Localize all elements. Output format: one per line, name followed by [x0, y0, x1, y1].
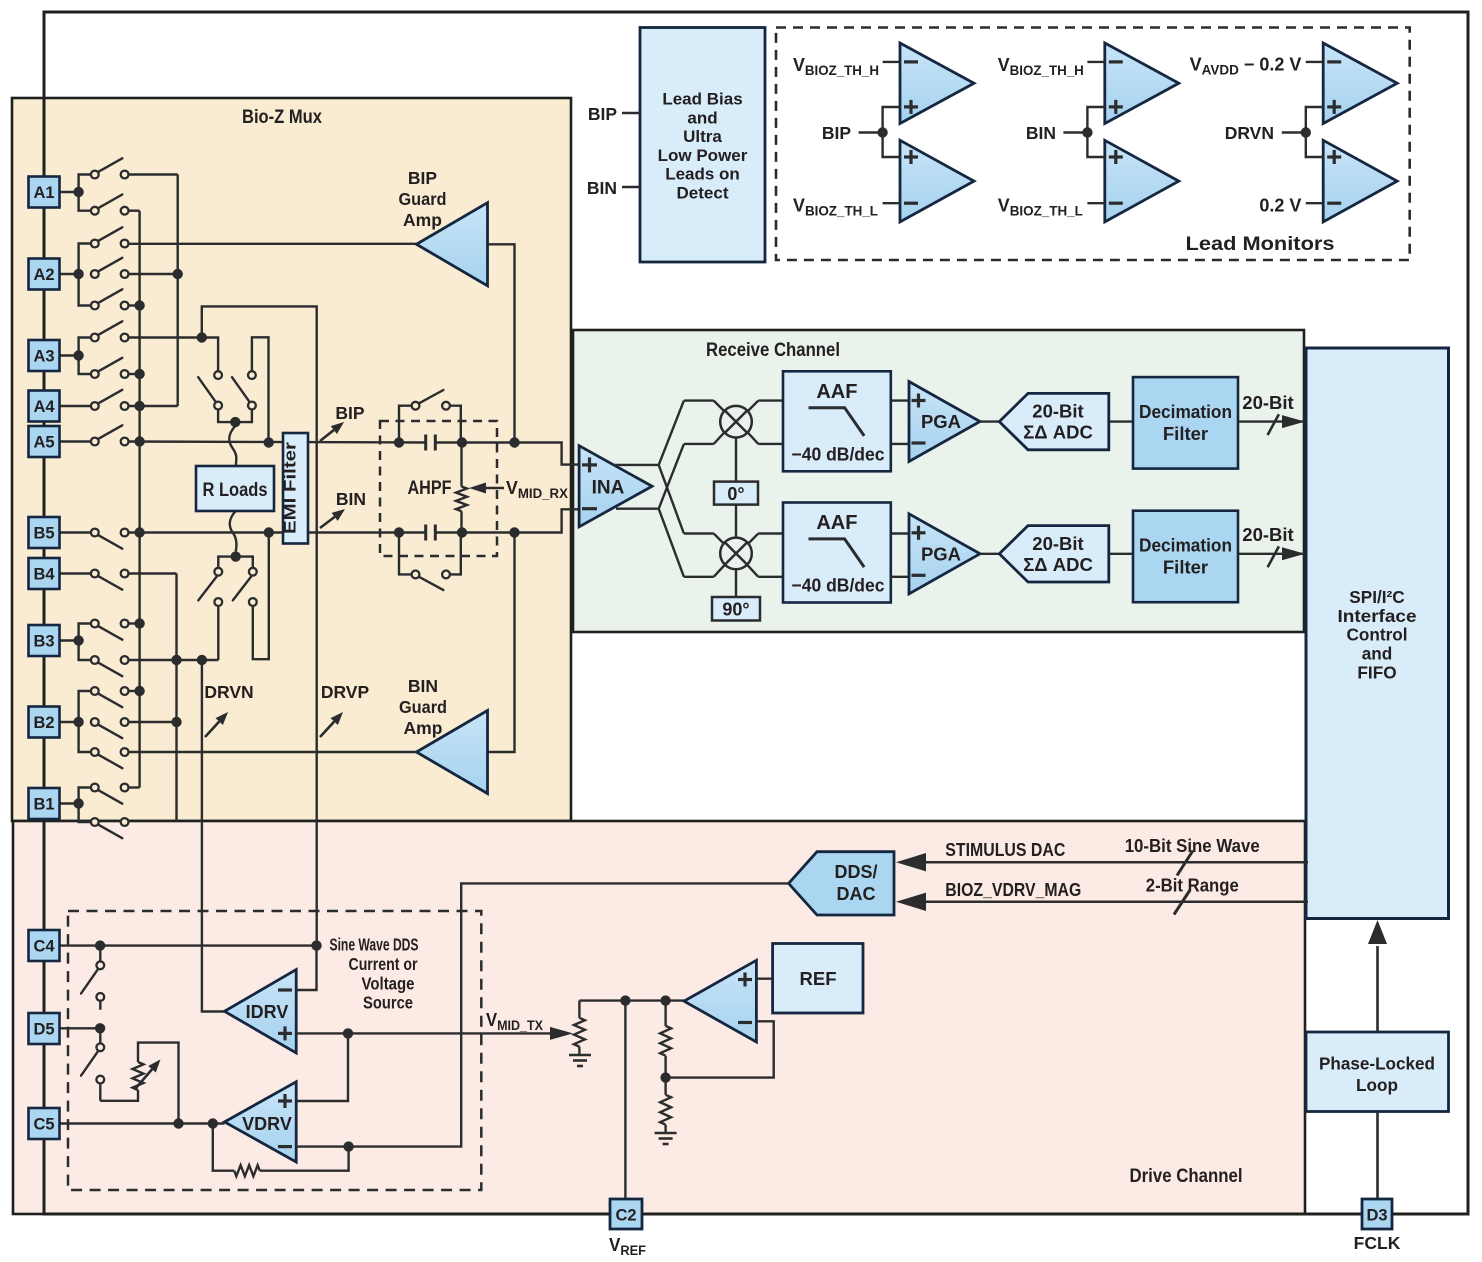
svg-text:REF: REF [800, 968, 837, 989]
amplifier PGA I [909, 382, 980, 462]
ground divider [655, 1132, 677, 1135]
op-amp BIP Guard Amp [416, 203, 487, 286]
svg-text:DAC: DAC [837, 884, 876, 904]
svg-text:20-Bit: 20-Bit [1032, 533, 1083, 554]
filter AHPF dashed box [380, 421, 497, 556]
wire C4 row [60, 944, 317, 946]
wire LO chain [735, 438, 737, 482]
svg-text:Source: Source [363, 993, 413, 1013]
svg-text:0°: 0° [727, 484, 744, 504]
wire BIP row (A5 to INA+) [134, 436, 144, 446]
svg-text:D3: D3 [1366, 1207, 1387, 1225]
wire A1 fork [73, 187, 83, 197]
wire VDRV feedback [260, 1147, 349, 1171]
svg-text:Decimation: Decimation [1139, 535, 1232, 556]
svg-text:C4: C4 [33, 938, 55, 956]
svg-text:Ultra: Ultra [683, 127, 722, 146]
rheostat adjustable R [133, 1062, 144, 1090]
comparator upper [1105, 43, 1179, 124]
wire B4 to bus-M2 [129, 572, 177, 574]
capacitor AHPF bottom [424, 525, 427, 541]
wire AAF-PGA stubs I [891, 399, 909, 401]
resistor block R Loads [196, 466, 274, 511]
switch A4 [60, 405, 91, 407]
wire to C2 pin [624, 1001, 626, 1199]
wire buffer+ to REF [756, 978, 772, 980]
wire INA output fan [614, 464, 659, 466]
svg-text:IDRV: IDRV [246, 1002, 289, 1022]
filter Decimation Q [1133, 511, 1238, 603]
wire VREF node row [579, 999, 684, 1001]
wire ADC-decimation I [1109, 420, 1133, 422]
wire DRVP bus [202, 306, 317, 945]
filter AAF I [783, 371, 891, 471]
svg-text:PGA: PGA [921, 543, 961, 564]
op-amp INA [579, 446, 652, 527]
svg-text:VDRV: VDRV [242, 1114, 292, 1134]
svg-text:SPI/I²C: SPI/I²C [1349, 587, 1404, 607]
svg-text:Leads on: Leads on [665, 165, 740, 184]
switch A1-top [98, 158, 123, 172]
wire ADC-decimation Q [1109, 553, 1133, 555]
svg-text:INA: INA [592, 478, 625, 499]
wire A2-bottom to bus-L [129, 304, 140, 306]
svg-text:Interface: Interface [1338, 606, 1417, 626]
svg-text:B1: B1 [33, 796, 54, 814]
pin B2 [29, 707, 60, 738]
switch B2-top [98, 693, 123, 707]
svg-text:Low Power: Low Power [658, 146, 748, 165]
svg-text:and: and [1362, 644, 1393, 664]
wire RL bottom node arms [218, 557, 235, 568]
wire BIP guard input bus [488, 244, 515, 442]
svg-text:DRVN: DRVN [204, 682, 253, 702]
wire B2-top to bus-L [129, 690, 140, 692]
svg-text:Current or: Current or [349, 954, 418, 974]
svg-text:AHPF: AHPF [408, 478, 452, 499]
mixer Q [720, 538, 752, 570]
wire A2 fork [73, 269, 83, 279]
adc 20-bit sigma-delta I [999, 393, 1109, 449]
svg-text:B3: B3 [33, 633, 54, 651]
pin A4 [29, 391, 60, 422]
svg-text:A3: A3 [33, 348, 54, 366]
block Phase-Locked Loop [1306, 1032, 1449, 1112]
svg-text:and: and [687, 108, 717, 127]
svg-text:B2: B2 [33, 714, 54, 732]
wire RL-bottom-left to DRVN row [217, 606, 219, 660]
wire squiggle R Loads bottom [230, 511, 237, 551]
wire mixer1 jogs [714, 401, 727, 414]
svg-text:BIP: BIP [335, 403, 365, 423]
wire D5 row [60, 1027, 101, 1029]
svg-text:Filter: Filter [1163, 423, 1208, 444]
svg-text:FCLK: FCLK [1354, 1233, 1401, 1253]
svg-text:B5: B5 [33, 525, 54, 543]
amplifier IDRV [225, 970, 297, 1053]
resistor divider bottom [660, 1095, 671, 1125]
switch A5 [60, 440, 91, 442]
svg-text:Filter: Filter [1163, 557, 1208, 578]
switch A2-bottom [98, 289, 123, 303]
wire PGA-ADC I [980, 420, 999, 422]
svg-text:Receive Channel: Receive Channel [706, 340, 840, 361]
wire buffer- feedback [666, 1021, 774, 1077]
svg-text:ΣΔ ADC: ΣΔ ADC [1023, 554, 1093, 575]
wire 20-bit output Q [1238, 553, 1308, 555]
svg-text:Guard: Guard [399, 189, 447, 209]
svg-text:A2: A2 [33, 266, 54, 284]
pin A5 [29, 426, 60, 457]
switch B5 [60, 531, 91, 533]
filter Decimation I [1133, 377, 1238, 469]
switch B1-top [98, 790, 123, 804]
svg-text:PGA: PGA [921, 411, 961, 432]
wire A3-top arm to switch column [202, 338, 218, 372]
comparator lower [1105, 140, 1179, 222]
svg-text:Detect: Detect [677, 184, 729, 203]
wire A2-top to BIP guard amp output [129, 243, 417, 245]
pin D5 [29, 1013, 60, 1044]
box Sine Wave DDS source dashed [68, 911, 481, 1190]
svg-text:Decimation: Decimation [1139, 401, 1232, 422]
wire RL-bottom-right to BIN row [253, 533, 269, 660]
block Lead Bias and Ultra Low Power Leads on Detect [640, 28, 765, 263]
switch AHPF top bypass [399, 406, 411, 443]
comparator VREF buffer [684, 960, 756, 1042]
adc 20-bit sigma-delta Q [999, 526, 1109, 582]
svg-text:C2: C2 [615, 1207, 636, 1225]
svg-text:Amp: Amp [404, 718, 443, 738]
svg-text:−40 dB/dec: −40 dB/dec [792, 443, 885, 464]
ground V_MID_TX [569, 1054, 591, 1057]
switch RL-top-right [252, 337, 269, 442]
svg-text:Voltage: Voltage [362, 974, 415, 994]
svg-text:BIN: BIN [336, 489, 366, 509]
pin C2 [610, 1199, 642, 1229]
switch B2-mid [98, 724, 123, 738]
svg-text:BIP: BIP [822, 123, 852, 143]
svg-text:Phase-Locked: Phase-Locked [1319, 1053, 1435, 1073]
pin C4 [29, 930, 60, 961]
svg-text:EMI Filter: EMI Filter [281, 442, 300, 534]
svg-text:DDS/: DDS/ [834, 862, 877, 882]
svg-text:R Loads: R Loads [203, 480, 268, 501]
wire A2-mid to bus-M [129, 273, 178, 275]
pin B4 [29, 558, 60, 589]
wire STIMULUS DAC [918, 861, 1308, 864]
svg-text:Guard: Guard [399, 697, 447, 717]
amplifier VDRV [225, 1082, 297, 1162]
oscillator 0 deg [714, 482, 758, 505]
svg-text:A4: A4 [33, 398, 55, 416]
mixer I [720, 406, 752, 438]
svg-text:DRVP: DRVP [321, 682, 370, 702]
potentiometer V_MID_TX [578, 1001, 580, 1018]
wire AAF-PGA stubs Q [891, 532, 909, 534]
Bio-Z Mux region [12, 98, 571, 821]
switch A3-bottom [98, 358, 123, 372]
wire A3 fork [73, 350, 83, 360]
svg-text:BIN: BIN [1026, 123, 1056, 143]
switch RL-top-left [198, 377, 217, 403]
svg-text:Lead Bias: Lead Bias [662, 90, 742, 109]
wire PGA-ADC Q [980, 553, 999, 555]
amplifier PGA Q [909, 514, 980, 594]
switch RL-bottom-left [198, 577, 216, 601]
svg-text:FIFO: FIFO [1357, 663, 1396, 683]
svg-text:90°: 90° [722, 600, 749, 620]
wire 20-bit output I [1238, 420, 1308, 422]
svg-text:D5: D5 [33, 1021, 54, 1039]
svg-text:0.2 V: 0.2 V [1259, 196, 1301, 216]
comparator upper [1323, 43, 1397, 124]
svg-text:Drive Channel: Drive Channel [1130, 1166, 1243, 1187]
svg-text:Control: Control [1346, 625, 1407, 645]
filter AAF Q [783, 503, 891, 603]
svg-text:BIN: BIN [408, 676, 438, 696]
svg-text:2-Bit Range: 2-Bit Range [1146, 876, 1239, 896]
wire RL top node [218, 409, 252, 422]
switch B3-bottom [98, 662, 123, 676]
wire bus-M2 [175, 574, 177, 822]
wire B3 fork [73, 635, 83, 645]
wire B1 fork [73, 798, 83, 808]
svg-text:STIMULUS DAC: STIMULUS DAC [945, 840, 1065, 860]
svg-text:Sine Wave DDS: Sine Wave DDS [330, 935, 419, 955]
node V_MID_RX [469, 483, 486, 494]
svg-text:BIN: BIN [587, 178, 617, 198]
comparator upper [900, 43, 974, 124]
switch RL-bottom-right [233, 577, 251, 601]
pin A1 [29, 177, 60, 208]
wire squiggle to R Loads top [229, 426, 236, 466]
svg-text:Lead Monitors: Lead Monitors [1186, 234, 1335, 255]
wire A4 to bus-M [129, 405, 178, 407]
wire B3-bottom (DRVN row) [129, 659, 219, 661]
wire BIN guard input bus [488, 533, 515, 753]
svg-text:A1: A1 [33, 184, 54, 202]
wire BIN row (B5 to INA-) [134, 527, 144, 537]
wire B2 fork [73, 717, 83, 727]
wire mixer2 jogs [714, 534, 727, 547]
pin A2 [29, 259, 60, 290]
svg-text:AAF: AAF [816, 512, 857, 534]
wires comparator inputs [1306, 61, 1323, 63]
wire IDRV- to C4 node [296, 946, 316, 990]
pin D3 [1362, 1199, 1392, 1229]
wire A3-bottom to bus-L [129, 373, 140, 375]
pin B5 [29, 517, 60, 548]
svg-text:20-Bit: 20-Bit [1242, 524, 1293, 545]
pin B3 [29, 625, 60, 656]
svg-text:C5: C5 [33, 1116, 54, 1134]
svg-text:20-Bit: 20-Bit [1032, 401, 1083, 422]
pin C5 [29, 1108, 60, 1139]
op-amp BIN Guard Amp [416, 711, 487, 794]
wire DDS output to VDRV- node [349, 883, 789, 1146]
svg-text:BIOZ_VDRV_MAG: BIOZ_VDRV_MAG [945, 880, 1081, 900]
switch B4 [60, 572, 91, 574]
resistor VDRV feedback [234, 1165, 260, 1176]
switch A1-bottom [98, 195, 123, 209]
wire B1-top to bus-L [129, 786, 140, 788]
svg-text:ΣΔ ADC: ΣΔ ADC [1023, 422, 1093, 443]
svg-text:BIP: BIP [588, 104, 618, 124]
wire FCLK to PLL [1376, 1112, 1379, 1200]
wire B2-bottom to BIN guard amp output [129, 751, 417, 753]
wire A1-bottom to bus-L [129, 209, 140, 211]
comparator lower [900, 140, 974, 222]
svg-text:A5: A5 [33, 434, 54, 452]
svg-text:BIP: BIP [408, 168, 438, 188]
box Lead Monitors dashed [776, 28, 1410, 261]
switch B1-bottom [98, 824, 123, 838]
pin B1 [29, 788, 60, 819]
resistor divider top [664, 1001, 666, 1026]
wire PLL to SPI [1376, 946, 1379, 1032]
wires comparator inputs [1087, 61, 1104, 63]
svg-text:20-Bit: 20-Bit [1242, 392, 1293, 413]
Drive Channel region [13, 821, 1305, 1214]
wire IDRV+ output V_MID_TX row [296, 1032, 551, 1034]
svg-text:Amp: Amp [403, 210, 442, 230]
wire B2-mid to bus-M2 [129, 721, 177, 723]
pin A3 [29, 340, 60, 371]
resistor AHPF mid [460, 443, 462, 487]
switch A3-top [98, 321, 123, 335]
wire bus-M [176, 175, 178, 407]
wire A3-top to DRVP riser [129, 336, 202, 338]
switch D5 [99, 1032, 101, 1044]
comparator lower [1323, 140, 1397, 222]
switch AHPF bottom bypass [399, 533, 411, 575]
wire VDRV- output [296, 1145, 348, 1147]
svg-text:−40 dB/dec: −40 dB/dec [792, 575, 885, 596]
wires comparator inputs [883, 61, 900, 63]
wire rheostat branch [100, 1090, 138, 1101]
switch B2-bottom [98, 754, 123, 768]
svg-text:AAF: AAF [816, 381, 857, 403]
switch A2-top [98, 227, 123, 241]
svg-text:B4: B4 [33, 566, 55, 584]
Receive Channel region [573, 330, 1304, 632]
svg-text:Loop: Loop [1356, 1075, 1398, 1095]
wire BIOZ_VDRV_MAG [918, 901, 1308, 904]
capacitor AHPF top [424, 435, 427, 451]
wire B3-top to bus-L [129, 622, 140, 624]
wire C5 row [60, 1122, 225, 1124]
svg-text:Bio-Z Mux: Bio-Z Mux [242, 107, 322, 128]
filter EMI Filter [283, 433, 308, 544]
wire IDRV+ branch to VDRV+ [296, 1033, 348, 1101]
switch B3-top [98, 626, 123, 640]
svg-text:DRVN: DRVN [1225, 123, 1274, 143]
switch C4 [99, 949, 101, 961]
block SPI/I2C Interface Control and FIFO [1306, 348, 1449, 919]
wire DRVN bus [202, 660, 225, 1012]
dac DDS/DAC [789, 852, 894, 915]
wire bus-L [138, 211, 140, 788]
switch A2-mid [98, 258, 123, 272]
oscillator 90 deg [712, 597, 760, 621]
wire A1-top to bus-M [129, 173, 178, 175]
block REF [773, 944, 863, 1014]
